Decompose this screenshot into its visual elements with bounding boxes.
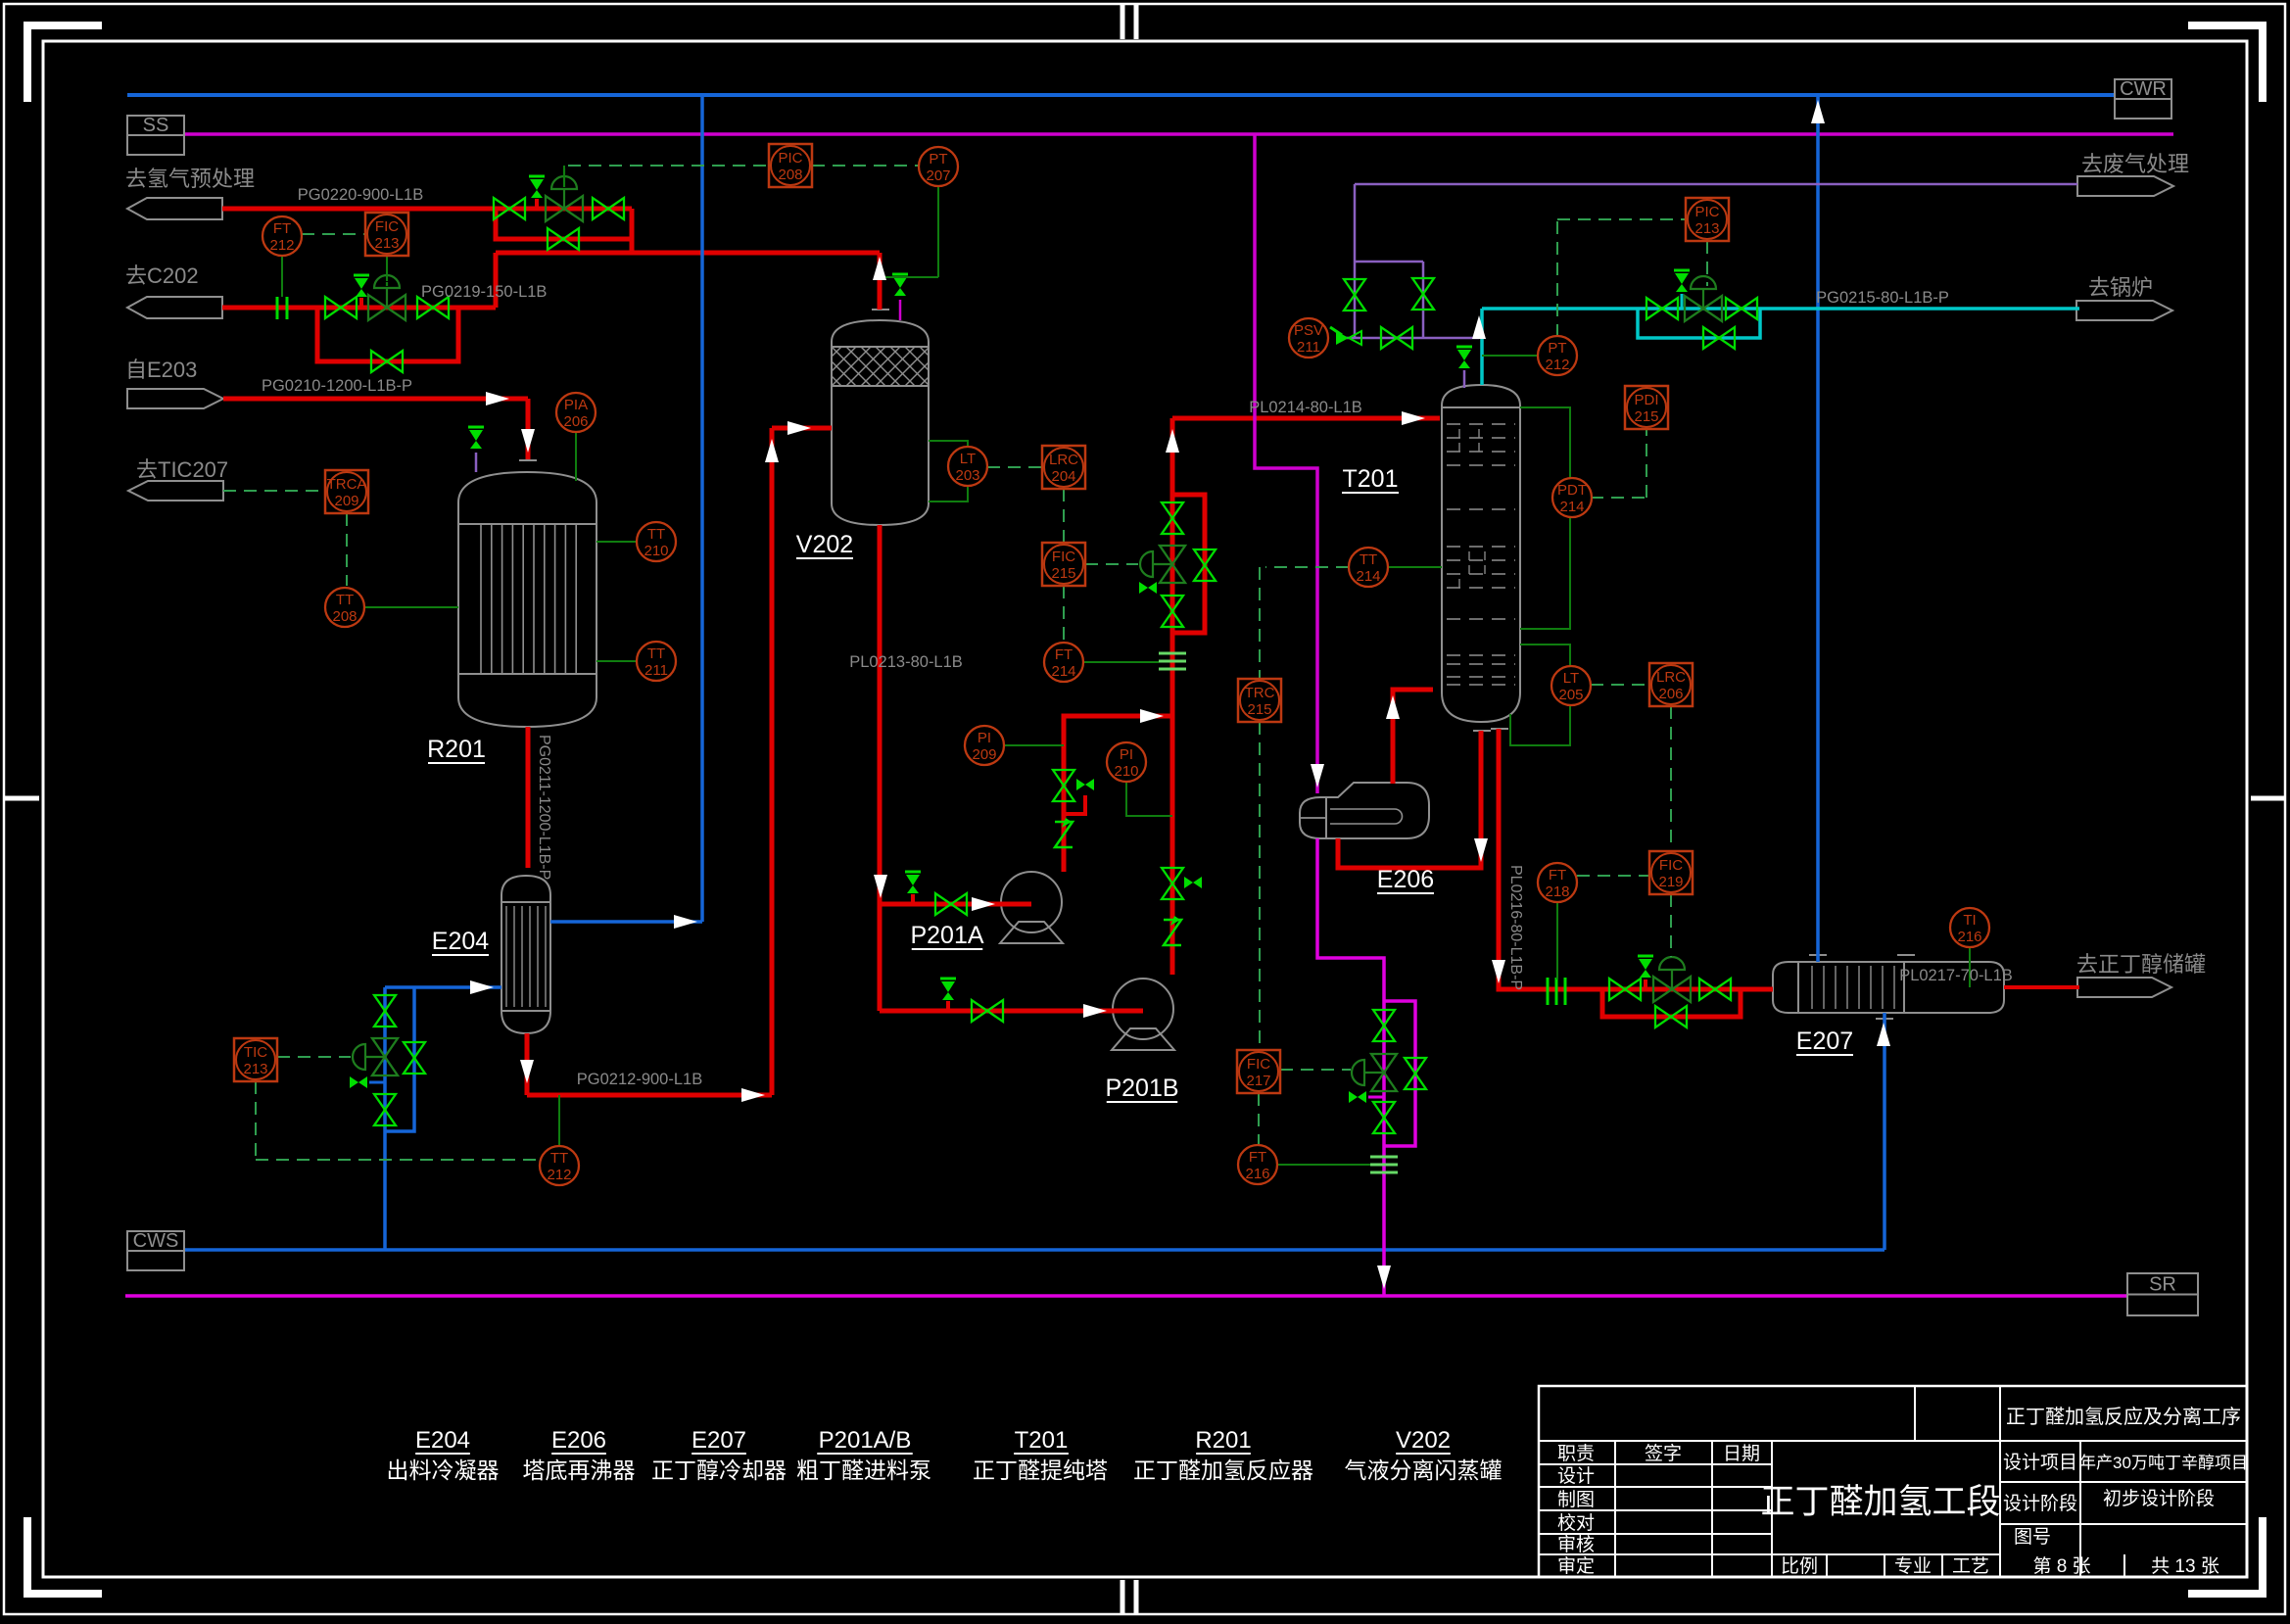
column T201 [1442, 385, 1520, 722]
pipe P201A suction vent stub [911, 894, 915, 904]
signal PIC208 to PT207 [812, 165, 919, 167]
svg-text:专业: 专业 [1894, 1555, 1932, 1577]
hand valve P201B suction stub [940, 978, 956, 980]
gate valve riser bypass [1194, 549, 1216, 565]
signal TT208 tap [364, 606, 458, 608]
svg-text:PG0215-80-L1B-P: PG0215-80-L1B-P [1816, 289, 1949, 307]
svg-text:207: 207 [926, 167, 950, 184]
svg-text:206: 206 [563, 413, 588, 430]
svg-text:去氢气预处理: 去氢气预处理 [125, 167, 255, 191]
CWS box [127, 1231, 184, 1270]
gate valve PG0220 block 2 [593, 198, 608, 219]
svg-text:TT: TT [336, 592, 354, 608]
pipe P201B suction vent stub [946, 1001, 950, 1011]
gate valve PG0215 block 1 [1646, 298, 1662, 319]
cyan control valve stub [1681, 294, 1684, 309]
svg-text:设计项目: 设计项目 [2003, 1452, 2077, 1473]
signal FT212 to FIC213 [302, 233, 366, 235]
control valve TV-213 [372, 1038, 398, 1057]
control valve FV-219 [1653, 977, 1672, 1002]
pipe PG0212 to V202 riser [527, 1093, 772, 1098]
connector 去废气处理 [2077, 176, 2173, 196]
solenoid FV-217 [1349, 1091, 1358, 1103]
title block bottom row cells [1772, 1553, 2000, 1555]
svg-text:212: 212 [547, 1167, 571, 1183]
instrument FIC 219 [1649, 851, 1693, 894]
orifice FT218 [1547, 978, 1550, 1005]
signal PIA206 tap [575, 432, 577, 481]
corner trim mark top-right [2259, 24, 2266, 102]
magenta steam from SS header [1255, 134, 1317, 793]
hand valve PG0215 stub [1674, 269, 1690, 272]
magenta solenoid stub [1368, 1096, 1384, 1099]
svg-text:215: 215 [1051, 565, 1075, 582]
control valve FV-213 [368, 295, 387, 320]
violet R201 vent stub [475, 453, 478, 472]
signal FT212 to orifice [281, 256, 283, 297]
svg-text:213: 213 [374, 235, 399, 252]
svg-text:E204: E204 [432, 928, 489, 955]
svg-text:213: 213 [1694, 220, 1719, 237]
pipe T201 reboiler downcomer [1338, 731, 1481, 868]
instrument PDI 215 [1625, 386, 1668, 429]
gate valve PG0215 bypass [1703, 327, 1719, 349]
instrument FIC 213 [365, 213, 408, 256]
signal TT212 tap [558, 1095, 560, 1146]
instrument PT 212 [1538, 336, 1577, 375]
instrument PT 207 [919, 147, 958, 186]
violet relief header to flare [1354, 184, 1357, 262]
title block left table [1614, 1441, 1616, 1577]
svg-text:E206: E206 [551, 1427, 606, 1454]
svg-text:E206: E206 [1377, 866, 1434, 893]
T201 internals trays [1447, 424, 1515, 685]
svg-text:214: 214 [1356, 568, 1380, 585]
blue E207 CW inlet [1883, 1013, 1886, 1250]
blue E204 CW outlet [550, 920, 702, 924]
gate valve condensate block 2 [1373, 1102, 1395, 1118]
V202 top nozzle tick [872, 309, 889, 310]
instrument PIA 206 [556, 393, 596, 432]
svg-text:T201: T201 [1343, 465, 1399, 493]
svg-text:SS: SS [143, 115, 169, 136]
connector 去C202 [127, 297, 222, 318]
svg-text:PL0214-80-L1B: PL0214-80-L1B [1249, 399, 1362, 416]
svg-text:去TIC207: 去TIC207 [136, 457, 228, 482]
signal TT214 to TRC215 [1265, 566, 1349, 568]
CWR box [2115, 79, 2171, 119]
control valve FV-215 [1160, 546, 1185, 564]
signal FIC219 to valve [1670, 894, 1672, 957]
svg-text:PIC: PIC [1694, 204, 1719, 220]
svg-text:FT: FT [1055, 646, 1073, 663]
svg-text:203: 203 [955, 467, 979, 484]
solenoid FV-215 [1139, 582, 1148, 594]
signal PI210 tap [1126, 782, 1172, 816]
solenoid TV-213 [350, 1076, 358, 1088]
vent valve T201 [1456, 346, 1472, 349]
svg-text:比例: 比例 [1781, 1555, 1818, 1577]
svg-text:TIC: TIC [244, 1044, 267, 1061]
svg-text:215: 215 [1247, 701, 1271, 718]
solenoid P201B discharge [1184, 877, 1193, 888]
svg-text:PG0210-1200-L1B-P: PG0210-1200-L1B-P [262, 377, 412, 395]
T201 bottom nozzle ticks [1473, 730, 1491, 732]
hand valve PG0219 stub [354, 274, 369, 277]
svg-text:204: 204 [1051, 468, 1075, 485]
connector 去氢气预处理 [127, 198, 222, 219]
magenta E206 condensate out [1317, 838, 1384, 1296]
pipe E204 outlet [525, 1033, 530, 1095]
instrument PIC 208 [769, 144, 812, 187]
signal LT205 to LRC206 [1591, 684, 1649, 686]
svg-text:P201A: P201A [910, 922, 983, 949]
signal PT207 tap [937, 186, 939, 277]
svg-text:LT: LT [960, 451, 976, 467]
instrument FIC 215 [1042, 543, 1085, 586]
svg-text:去锅炉: 去锅炉 [2088, 275, 2153, 300]
pipe E206 vapor return to T201 [1393, 690, 1433, 784]
svg-text:PSV: PSV [1294, 322, 1323, 339]
svg-text:TT: TT [647, 526, 665, 543]
svg-text:SR: SR [2149, 1274, 2176, 1296]
signal LT203 taps [929, 441, 968, 447]
svg-text:PL0216-80-L1B-P: PL0216-80-L1B-P [1507, 865, 1524, 990]
pipe PG0220 drop to header [630, 209, 635, 253]
svg-text:正丁醇冷却器: 正丁醇冷却器 [651, 1457, 787, 1483]
edge centre marks [1121, 4, 1125, 39]
signal FT218 tap [1556, 902, 1558, 979]
blue solenoid stub [369, 1081, 385, 1084]
svg-text:211: 211 [1297, 339, 1320, 356]
solenoid P201A discharge [1076, 779, 1085, 790]
svg-text:去C202: 去C202 [125, 263, 199, 288]
svg-text:212: 212 [1545, 357, 1569, 373]
svg-text:年产30万吨丁辛醇项目: 年产30万吨丁辛醇项目 [2079, 1454, 2248, 1472]
svg-text:审核: 审核 [1557, 1534, 1595, 1555]
svg-text:212: 212 [269, 237, 294, 254]
svg-text:P201A/B: P201A/B [819, 1427, 912, 1454]
signal FIC217 to FT216 [1258, 1093, 1260, 1145]
orifice FT216 [1370, 1156, 1398, 1159]
pipe V202 top feed drop [878, 253, 883, 310]
SR steam condensate return header [125, 1294, 2127, 1298]
svg-text:初步设计阶段: 初步设计阶段 [2103, 1488, 2215, 1509]
connector 去正丁醇储罐 [2077, 978, 2171, 997]
instrument TT 210 [637, 522, 676, 561]
SS steam supply header [184, 132, 2173, 136]
svg-text:工艺: 工艺 [1952, 1555, 1989, 1577]
signal LRC206 to FIC219 [1670, 706, 1672, 851]
svg-text:出料冷凝器: 出料冷凝器 [387, 1457, 500, 1483]
svg-text:208: 208 [778, 167, 802, 183]
gate valve riser block upper [1162, 502, 1183, 518]
svg-text:PDT: PDT [1557, 482, 1587, 499]
svg-text:T201: T201 [1015, 1427, 1069, 1454]
svg-text:208: 208 [332, 608, 357, 625]
svg-text:签字: 签字 [1645, 1443, 1682, 1464]
pump P201A [1001, 872, 1062, 932]
gate valve P201B suction [972, 1000, 987, 1022]
svg-text:正丁醛加氢工段: 正丁醛加氢工段 [1760, 1483, 2000, 1521]
signal PT212 to PIC213 [1556, 219, 1558, 337]
svg-text:粗丁醛进料泵: 粗丁醛进料泵 [796, 1457, 931, 1483]
pipe PG0220 manifold top run [496, 207, 632, 212]
svg-text:校对: 校对 [1557, 1512, 1595, 1534]
instrument LT 205 [1551, 666, 1591, 705]
blue CW riser E207 return [1816, 95, 1820, 962]
svg-text:PL0217-70-L1B: PL0217-70-L1B [1899, 967, 2013, 984]
signal TIC213 to TT212 [255, 1081, 257, 1160]
svg-text:FT: FT [1249, 1149, 1266, 1166]
svg-text:PG0220-900-L1B: PG0220-900-L1B [298, 186, 423, 204]
svg-text:去正丁醇储罐: 去正丁醇储罐 [2076, 952, 2206, 977]
instrument TT 208 [325, 588, 364, 627]
instrument PI 209 [965, 726, 1004, 765]
svg-text:共 13 张: 共 13 张 [2151, 1555, 2219, 1577]
pipe P201A vent stub [1064, 795, 1085, 814]
svg-text:V202: V202 [796, 531, 853, 558]
svg-text:E204: E204 [415, 1427, 470, 1454]
instrument TRCA 209 [325, 470, 368, 513]
instrument TRC 215 [1238, 679, 1281, 722]
instrument PI 210 [1107, 742, 1146, 782]
svg-text:PL0213-80-L1B: PL0213-80-L1B [849, 653, 963, 671]
blue E204 CW inlet from CWS [383, 987, 387, 1250]
cyan T201 overhead to boiler PG0215 [1480, 309, 1484, 385]
instrument LRC 206 [1649, 663, 1693, 706]
svg-text:206: 206 [1658, 686, 1683, 702]
gate valve PG0219 block 2 [417, 297, 433, 318]
svg-text:正丁醛加氢反应及分离工序: 正丁醛加氢反应及分离工序 [2006, 1406, 2241, 1428]
signal TI216 tap [1969, 947, 1971, 987]
instrument PSV 211 [1289, 318, 1328, 358]
svg-text:210: 210 [644, 543, 668, 559]
svg-text:PI: PI [978, 730, 991, 746]
title block right rows [2000, 1481, 2247, 1483]
svg-text:V202: V202 [1396, 1427, 1451, 1454]
svg-text:FIC: FIC [1247, 1056, 1270, 1073]
magenta V202 vent stub [899, 300, 902, 320]
pump P201B [1113, 979, 1173, 1039]
R201 top nozzle tick [519, 459, 537, 461]
signal LT203 to LRC204 [987, 466, 1042, 468]
E207 nozzle ticks [1809, 954, 1827, 956]
gate valve PG0219 block 1 [325, 297, 341, 318]
svg-text:FIC: FIC [1052, 549, 1075, 565]
signal FIC217 to valve [1280, 1069, 1351, 1071]
pipe PG0220 valve stub vent [535, 199, 539, 209]
svg-text:217: 217 [1246, 1073, 1270, 1089]
cyan bypass loop [1638, 309, 1760, 338]
instrument PDT 214 [1552, 478, 1592, 517]
hand valve P201A suction stub [905, 871, 921, 874]
pipe R201 outlet to E204 [526, 727, 531, 868]
gate valve PG0215 block 2 [1726, 298, 1741, 319]
signal TT211 tap [596, 660, 637, 662]
svg-text:PG0211-1200-L1B-P: PG0211-1200-L1B-P [536, 735, 552, 880]
signal LRC204 to FIC215 [1063, 489, 1065, 543]
svg-text:FIC: FIC [1659, 857, 1683, 874]
CWR cooling water return header [127, 93, 2115, 97]
svg-text:正丁醛提纯塔: 正丁醛提纯塔 [973, 1457, 1108, 1483]
signal PI209 tap [1004, 744, 1064, 746]
signal TIC213 to valve [277, 1056, 351, 1058]
hand valve E207 stub [1638, 955, 1653, 958]
signal PT212 tap [1482, 355, 1538, 357]
svg-text:E207: E207 [1796, 1027, 1853, 1055]
violet PSV relief piping [1336, 337, 1479, 340]
instrument FT 218 [1538, 863, 1577, 902]
svg-text:TI: TI [1963, 912, 1976, 929]
svg-text:日期: 日期 [1723, 1443, 1760, 1464]
instrument LT 203 [948, 447, 987, 486]
title block frame [1539, 1386, 2247, 1577]
signal TRCA209 from TIC207 [223, 490, 325, 492]
gate valve PG0220 bypass [548, 228, 563, 250]
gate valve E207 bypass [1655, 1006, 1671, 1027]
CWS cooling water supply header [183, 1248, 1884, 1252]
gate valve PG0220 block 1 [494, 198, 509, 219]
signal TT214 tap [1388, 566, 1442, 568]
svg-text:职责: 职责 [1557, 1443, 1595, 1464]
pipe V202 bottoms [878, 525, 883, 1011]
violet T201 vent stub [1463, 370, 1466, 388]
svg-text:CWS: CWS [133, 1230, 179, 1252]
svg-text:PI: PI [1120, 746, 1133, 763]
gate valve condensate bypass [1405, 1058, 1426, 1074]
gate valve relief riser 2 [1412, 278, 1434, 294]
gate valve PG0219 bypass [371, 351, 387, 372]
instrument PIC 213 [1686, 198, 1729, 241]
svg-text:PT: PT [929, 151, 947, 167]
pipe P201B discharge riser PL0214 [1170, 421, 1175, 975]
flash drum V202 [832, 320, 929, 525]
svg-text:TT: TT [550, 1150, 568, 1167]
svg-text:PG0219-150-L1B: PG0219-150-L1B [421, 283, 547, 301]
orifice FT212 [276, 297, 279, 319]
svg-text:218: 218 [1545, 884, 1569, 900]
svg-text:LT: LT [1563, 670, 1579, 687]
pipe R201 inlet drop [526, 399, 531, 459]
svg-text:第 8 张: 第 8 张 [2032, 1555, 2090, 1577]
signal FT218 to FIC219 [1577, 875, 1649, 877]
svg-text:设计: 设计 [1557, 1465, 1595, 1487]
pipe PG0220 hydrogen recycle [222, 207, 496, 212]
svg-text:214: 214 [1559, 499, 1584, 515]
control valve PV-208 [546, 196, 564, 221]
signal FIC215 to valve [1085, 563, 1138, 565]
gate valve P201A suction [935, 893, 951, 915]
vent valve V202 [892, 273, 908, 276]
gate valve PSV lateral [1381, 327, 1397, 349]
signal FT216 tap [1276, 1164, 1370, 1166]
pipe PG0219 bypass [317, 308, 458, 361]
svg-text:LRC: LRC [1656, 669, 1686, 686]
blue E204 CW valve bypass [385, 987, 414, 1131]
pipe E207 bypass [1602, 989, 1741, 1017]
signal FIC215 to FT214 [1063, 586, 1065, 643]
corner trim mark top-left [24, 24, 31, 102]
svg-text:213: 213 [243, 1061, 267, 1077]
pipe header to V202 [496, 251, 880, 256]
svg-text:214: 214 [1051, 663, 1075, 680]
cooler E207 [1773, 962, 2004, 1013]
pipe P201A discharge [1064, 716, 1172, 872]
instrument FT 216 [1238, 1145, 1277, 1184]
gate valve CWS E204 bypass [404, 1042, 425, 1058]
condenser E204 [501, 876, 550, 1033]
pipe PG0219 valve stub vent [359, 298, 363, 308]
pipe riser bypass loop [1172, 495, 1205, 633]
pipe P201B suction [880, 1009, 1143, 1014]
instrument TT 211 [637, 642, 676, 681]
gate valve condensate block 1 [1373, 1010, 1395, 1026]
signal TRCA209 to TT208 [346, 513, 348, 586]
flow arrows [486, 392, 509, 406]
svg-text:211: 211 [644, 662, 668, 679]
svg-text:塔底再沸器: 塔底再沸器 [523, 1457, 636, 1483]
svg-text:205: 205 [1558, 687, 1583, 703]
svg-text:PT: PT [1548, 340, 1566, 357]
svg-text:去废气处理: 去废气处理 [2081, 152, 2189, 176]
gate valve E207 block 2 [1699, 979, 1715, 1000]
svg-text:219: 219 [1658, 874, 1683, 890]
instrument TIC 213 [234, 1038, 277, 1081]
svg-text:209: 209 [972, 746, 996, 763]
instrument LRC 204 [1042, 446, 1085, 489]
svg-text:正丁醛加氢反应器: 正丁醛加氢反应器 [1133, 1457, 1313, 1483]
pipe PL0217 product to storage [2004, 985, 2079, 989]
gate valve CWS E204 block 1 [374, 995, 396, 1011]
orifice FT214 [1159, 652, 1186, 655]
svg-text:R201: R201 [1195, 1427, 1251, 1454]
svg-text:设计阶段: 设计阶段 [2003, 1493, 2077, 1514]
angle valve PSV211 inlet [1336, 331, 1349, 345]
connector 自E203 [127, 389, 223, 408]
instrument TI 216 [1950, 908, 1989, 947]
svg-text:PIC: PIC [778, 150, 802, 167]
svg-text:TRCA: TRCA [327, 476, 367, 493]
gate valve relief riser 1 [1344, 279, 1365, 295]
svg-text:210: 210 [1114, 763, 1138, 780]
svg-text:209: 209 [334, 493, 358, 509]
svg-text:PDI: PDI [1634, 392, 1658, 408]
svg-text:审定: 审定 [1557, 1555, 1595, 1577]
check valve P201B discharge [1164, 920, 1181, 945]
pipe PG0210 feed from E203 [223, 397, 528, 402]
pipe PG0219 from C202 [222, 306, 496, 310]
magenta condensate bypass [1384, 1001, 1415, 1146]
instrument TT 212 [540, 1146, 579, 1185]
vent valve R201 [468, 426, 484, 429]
svg-text:TRC: TRC [1245, 685, 1275, 701]
gate valve E207 block 1 [1609, 979, 1625, 1000]
svg-text:P201B: P201B [1105, 1075, 1178, 1102]
gate valve P201A discharge [1053, 770, 1074, 786]
instrument FIC 217 [1237, 1050, 1280, 1093]
corner trim mark bottom-right [2259, 1517, 2266, 1595]
svg-text:LRC: LRC [1049, 452, 1078, 468]
pipe riser to V202 inlet [770, 428, 775, 1095]
pipe E207 control valve vent stub [1644, 979, 1647, 989]
signal control valve to PIC208 [563, 166, 565, 168]
signal PDT214 to PDI215 [1591, 497, 1646, 499]
control valve PV-213 [1685, 296, 1703, 321]
signal PDT214 taps [1520, 407, 1570, 478]
pipe PL0214 top run to T201 [1170, 418, 1175, 421]
svg-text:TT: TT [647, 645, 665, 662]
